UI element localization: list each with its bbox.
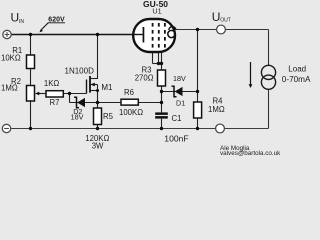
svg-text:1KΩ: 1KΩ: [44, 79, 60, 88]
wire C1 bottom to bus: [161, 119, 163, 129]
resistor R3: [158, 70, 166, 86]
wire R3 to D1 node to C1: [161, 86, 163, 112]
svg-text:18V: 18V: [173, 74, 186, 83]
tube grid g2 dashed: [158, 23, 160, 48]
load current source circles: [261, 65, 275, 79]
output terminal top: [217, 25, 226, 34]
mosfet M1 source stub: [90, 90, 98, 92]
mosfet M1 body stub and arrow: [90, 84, 98, 86]
wire right rail from cathode to right corner: [174, 29, 269, 31]
svg-text:R5: R5: [103, 112, 114, 121]
svg-text:OUT: OUT: [220, 18, 231, 24]
tube anode plate bar: [143, 27, 145, 43]
potentiometer R2: [27, 86, 35, 102]
wire grid leads below tube: [152, 51, 154, 64]
svg-text:D1: D1: [176, 99, 185, 108]
svg-text:270Ω: 270Ω: [135, 73, 154, 82]
svg-text:Load: Load: [288, 65, 306, 74]
tube cathode: [168, 30, 175, 37]
svg-text:18V: 18V: [71, 113, 84, 122]
wire D1 node up to right rail: [197, 30, 199, 92]
svg-text:100nF: 100nF: [164, 134, 188, 144]
tube grid g3 dashed: [164, 23, 166, 48]
tube plate lead inside: [134, 34, 143, 36]
wire pot wiper arrow to R7: [39, 93, 47, 95]
svg-text:3W: 3W: [92, 142, 104, 151]
wire R5 column: [97, 103, 99, 109]
mosfet M1 source tie vertical: [97, 85, 99, 103]
wire bottom ground bus: [11, 128, 269, 130]
resistor R1: [27, 55, 35, 69]
wire R1 R2 column segments: [30, 34, 32, 55]
mosfet M1 channel bar: [89, 76, 91, 93]
resistor R4: [194, 102, 202, 118]
svg-text:R7: R7: [50, 98, 60, 107]
svg-text:0-70mA: 0-70mA: [282, 75, 311, 84]
wire grid tie down to R3: [161, 64, 163, 71]
wire D1 horizontal: [162, 91, 198, 93]
svg-text:C1: C1: [172, 114, 182, 123]
output terminal bottom: [216, 124, 225, 133]
zener diode D1: [172, 86, 177, 96]
mosfet M1 drain stub: [90, 78, 98, 80]
wire D2 horizontal: [70, 102, 98, 104]
svg-text:R6: R6: [124, 88, 134, 97]
load arrow: [250, 62, 252, 85]
wire source node to R6 to C1 column: [98, 102, 162, 104]
resistor R7: [46, 91, 63, 97]
wire right vertical branch upper: [268, 30, 270, 66]
svg-text:valves@bartola.co.uk: valves@bartola.co.uk: [220, 150, 281, 157]
620V arrow: [42, 23, 49, 30]
junction dots: [29, 28, 199, 130]
wire D2 drop from gate node: [69, 94, 71, 103]
input terminal minus: [2, 124, 10, 132]
wire M1 drain column: [97, 34, 99, 79]
wire R7 to gate: [63, 93, 86, 95]
svg-text:1MΩ: 1MΩ: [208, 105, 225, 114]
svg-text:U1: U1: [152, 6, 161, 15]
svg-text:10KΩ: 10KΩ: [1, 53, 21, 62]
tube grid g1 dashed: [152, 23, 154, 48]
svg-text:1N100D: 1N100D: [65, 67, 95, 76]
capacitor C1: [155, 112, 168, 115]
wire right vertical branch lower: [268, 89, 270, 128]
620V underline: [48, 22, 65, 24]
resistor R6: [121, 99, 138, 105]
tube U1 envelope: [133, 19, 175, 52]
mosfet M1 gate bar: [86, 80, 88, 94]
zener diode D2: [74, 97, 79, 107]
svg-text:U: U: [212, 10, 221, 24]
input terminal plus: [3, 30, 11, 38]
svg-text:620V: 620V: [48, 17, 65, 24]
svg-text:1MΩ: 1MΩ: [1, 83, 18, 92]
svg-text:100KΩ: 100KΩ: [119, 108, 143, 117]
wire D1 node down to R4 and bus: [197, 92, 199, 103]
svg-text:M1: M1: [101, 83, 113, 92]
wire top rail from input to tube plate: [11, 34, 143, 36]
resistor R5: [94, 108, 102, 125]
svg-text:IN: IN: [19, 19, 24, 25]
svg-text:U: U: [11, 10, 20, 24]
